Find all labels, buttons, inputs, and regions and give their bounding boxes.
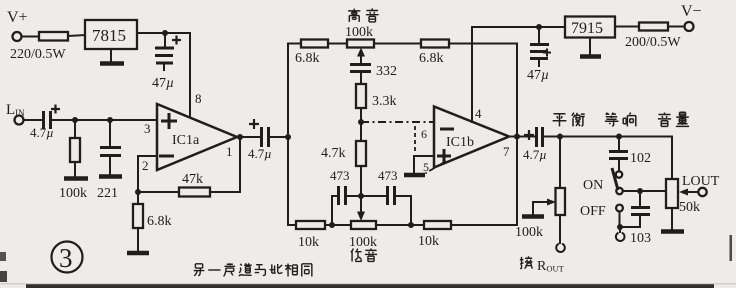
wire pin4 power	[471, 27, 473, 122]
ground 6.8k	[127, 251, 149, 256]
svg-text:103: 103	[630, 231, 651, 246]
ground 7815	[110, 49, 112, 62]
node junction R100k	[72, 117, 78, 123]
wire caps row right	[396, 196, 411, 225]
svg-text:7: 7	[503, 144, 510, 159]
wire 7915 to R200	[615, 26, 639, 28]
capacitor 102	[618, 137, 620, 151]
wiper balance	[533, 201, 547, 203]
ground 7915	[589, 38, 591, 55]
svg-text:4.7µ: 4.7µ	[30, 125, 54, 140]
wire dashed aux vertical	[414, 126, 416, 153]
potentiometer 100k bass	[351, 221, 376, 229]
svg-text:6: 6	[421, 127, 427, 141]
connector hook loudness	[616, 227, 625, 241]
op-amp IC1b	[434, 107, 509, 168]
svg-text:V−: V−	[681, 3, 702, 20]
svg-text:4.7k: 4.7k	[321, 146, 346, 161]
op-amp IC1a	[157, 104, 237, 170]
ground C221	[99, 174, 122, 179]
wire 3.3k to node	[360, 108, 362, 122]
node junction 47u right	[536, 24, 542, 30]
svg-text:100k: 100k	[515, 225, 543, 240]
capacitor 103	[639, 191, 641, 206]
wire treble right to feedback riser	[449, 43, 517, 45]
wire bass row to feedback riser	[451, 224, 517, 226]
svg-text:10k: 10k	[418, 234, 439, 249]
node loudness junction	[616, 134, 622, 140]
capacitor 332	[350, 63, 371, 66]
node bass left riser	[329, 222, 335, 228]
wire IC1b output	[509, 136, 535, 138]
wire to treble 6.8k right	[374, 43, 421, 45]
resistor 220/0.5W	[39, 32, 68, 41]
wire to IC1a pin8	[189, 33, 191, 117]
ground balance wiper	[522, 214, 544, 219]
switch lever	[612, 168, 618, 190]
svg-text:200/0.5W: 200/0.5W	[625, 35, 681, 50]
terminal LIN	[15, 116, 24, 125]
scan edge band bottom	[26, 284, 714, 288]
svg-text:4.7µ: 4.7µ	[248, 146, 272, 161]
wire dash-dot diagonal	[421, 161, 446, 176]
node feedback junction	[135, 189, 141, 195]
label volume	[658, 112, 671, 126]
label treble	[348, 9, 360, 22]
node OFF/103 junction	[617, 224, 623, 230]
capacitor 4.7u input	[42, 111, 45, 129]
wiper volume	[688, 191, 698, 193]
resistor 200/0.5W	[639, 23, 668, 31]
svg-text:6.8k: 6.8k	[295, 51, 320, 66]
capacitor 47u (left)	[164, 33, 166, 46]
resistor 10k bass right	[424, 221, 451, 229]
svg-text:5: 5	[423, 160, 429, 174]
wire 332 to 3.3k	[360, 73, 362, 84]
terminal LOUT	[698, 188, 706, 196]
label loudness	[605, 113, 619, 126]
node tone input	[285, 134, 291, 140]
node bass wiper junction	[358, 193, 364, 199]
svg-text:7915: 7915	[571, 20, 603, 37]
svg-text:47µ: 47µ	[527, 68, 549, 83]
svg-text:IC1b: IC1b	[446, 135, 474, 150]
svg-text:100k: 100k	[349, 235, 377, 250]
capacitor 473 left	[337, 186, 340, 205]
wire main output bus	[544, 137, 672, 180]
svg-text:6.8k: 6.8k	[419, 51, 444, 66]
switch pole contact	[616, 188, 622, 194]
svg-text:50k: 50k	[679, 200, 700, 215]
node balance junction	[557, 134, 563, 140]
svg-text:473: 473	[378, 168, 398, 183]
potentiometer 50k volume	[666, 179, 678, 208]
figure number 3	[52, 242, 83, 273]
svg-text:102: 102	[630, 151, 651, 166]
svg-text:3: 3	[144, 121, 151, 136]
node tap junction	[637, 188, 643, 194]
resistor 10k bass left	[296, 221, 325, 229]
wire feedback down	[210, 137, 240, 192]
svg-text:100k: 100k	[59, 186, 87, 201]
svg-text:100k: 100k	[345, 25, 373, 40]
scan mark right edge	[730, 235, 733, 261]
resistor 4.7k	[360, 122, 362, 141]
svg-text:4.7µ: 4.7µ	[523, 147, 547, 162]
svg-text:3.3k: 3.3k	[372, 94, 397, 109]
ground R100k	[64, 176, 88, 181]
svg-text:7815: 7815	[92, 26, 126, 45]
capacitor 4.7u output	[535, 127, 538, 147]
wire to treble pot	[328, 43, 347, 45]
potentiometer 100k treble	[347, 40, 374, 48]
svg-text:OFF: OFF	[580, 204, 606, 219]
wire cap to tone node	[270, 136, 288, 138]
wire tone left vertical	[288, 44, 301, 226]
ground volume	[671, 208, 673, 229]
resistor 6.8k treble left	[301, 40, 328, 48]
node output junction	[514, 134, 520, 140]
resistor 6.8k to ground	[137, 192, 139, 204]
svg-text:473: 473	[330, 168, 350, 183]
svg-text:220/0.5W: 220/0.5W	[10, 47, 66, 62]
regulator 7915	[565, 17, 615, 38]
switch OFF contact	[616, 205, 623, 212]
svg-text:1: 1	[226, 144, 233, 159]
resistor 100k input	[74, 120, 76, 138]
wire caps row left	[332, 196, 337, 225]
wiper bass	[360, 196, 362, 212]
wiper treble	[360, 55, 362, 63]
note other channel identical	[194, 264, 205, 276]
ground pin5	[404, 173, 425, 178]
potentiometer 100k balance	[559, 137, 561, 189]
pin 2 wire	[138, 156, 157, 192]
svg-text:4: 4	[475, 106, 482, 121]
capacitor 221	[109, 120, 111, 146]
svg-text:6.8k: 6.8k	[147, 214, 172, 229]
svg-text:IC1a: IC1a	[172, 133, 200, 148]
wire 47k to pin2 node	[138, 191, 179, 193]
svg-text:221: 221	[97, 186, 118, 201]
wire R220 to 7815	[68, 35, 85, 36]
svg-text:332: 332	[376, 64, 397, 79]
svg-text:2: 2	[142, 158, 149, 173]
terminal V-	[685, 22, 694, 31]
svg-text:V+: V+	[7, 9, 28, 26]
switch ON contact	[616, 171, 622, 177]
wire dashed to pin 6	[361, 121, 433, 123]
wire balance to Rout	[559, 215, 561, 243]
capacitor 473 right	[386, 186, 389, 205]
wire V+ to R 220	[22, 36, 40, 38]
node summing	[358, 119, 364, 125]
resistor 3.3k	[356, 84, 366, 108]
wire OFF down	[619, 212, 621, 228]
wire to bass pot	[325, 224, 351, 226]
svg-text:47µ: 47µ	[152, 76, 174, 91]
label bass	[351, 249, 362, 262]
label balance	[553, 114, 567, 127]
node junction 7815out/C47u	[162, 30, 168, 36]
node junction C221	[107, 117, 113, 123]
wire feedback riser vertical	[516, 44, 518, 226]
scan mark left edge	[0, 252, 6, 261]
svg-text:47k: 47k	[182, 172, 203, 187]
pin 5 wire to ground	[414, 156, 434, 172]
wire IC1a output	[237, 136, 260, 138]
node IC1a out	[237, 134, 243, 140]
resistor 47k feedback	[179, 188, 210, 197]
resistor 6.8k treble right	[421, 40, 449, 48]
node bass right riser	[408, 222, 414, 228]
label jie Rout	[520, 256, 533, 268]
wire LIN to C4.7u	[24, 119, 42, 121]
svg-text:LOUT: LOUT	[682, 174, 720, 189]
wire bass row left	[288, 224, 296, 226]
wire R200 to V-	[668, 26, 685, 28]
svg-text:8: 8	[195, 91, 202, 106]
svg-text:10k: 10k	[298, 235, 319, 250]
wire negative rail	[472, 26, 565, 28]
wire pot to 10k right	[376, 224, 424, 226]
svg-text:ON: ON	[583, 178, 603, 193]
connector hook balance	[556, 244, 565, 252]
regulator 7815	[85, 20, 137, 49]
wire C4.7u to IC1a pin3	[52, 119, 157, 121]
capacitor 4.7u IC1a out	[260, 127, 263, 147]
wire between caps	[347, 195, 386, 197]
wire pole to tap	[623, 190, 667, 192]
svg-text:3: 3	[59, 243, 73, 273]
capacitor 47u (right)	[538, 27, 540, 43]
wire 7815 output	[137, 32, 190, 34]
terminal V+	[13, 32, 22, 41]
